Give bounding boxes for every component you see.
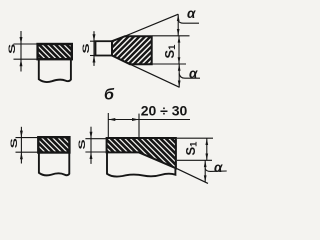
figure 4: arrow down [90, 132, 93, 139]
figure 4: arrow left [108, 118, 115, 121]
figure 2: upper angle leader arrow down [177, 29, 180, 36]
figure 4: dimension line S [90, 127, 92, 164]
figure 1: dimension line S [20, 31, 22, 72]
svg-text:20 ÷ 30: 20 ÷ 30 [141, 103, 188, 119]
figure 2: upper angle leader tail [178, 21, 199, 24]
figure 4: arrow right [132, 118, 139, 121]
figure 2: arrow up [93, 56, 96, 63]
figure 1: arrow down [20, 37, 23, 44]
figure 3: deposited weld band (hatched) [38, 137, 69, 152]
figure 4: extension line S bottom [85, 151, 106, 153]
figure 1: base plate with break line [39, 59, 71, 82]
svg-text:α: α [214, 160, 223, 175]
svg-text:S: S [81, 43, 91, 53]
figure 2: upper bevel slant line [125, 14, 178, 36]
svg-text:S: S [7, 44, 17, 54]
svg-text:S1: S1 [162, 44, 178, 59]
figure 2: base plate edge rectangle [96, 41, 113, 55]
figure 4: angle leader arrow down [204, 175, 207, 182]
figure 3: base plate with break line [39, 153, 69, 176]
figure 2: S1 dimension line [178, 36, 180, 64]
figure 4: extension line S top [85, 138, 106, 140]
figure 2: lower angle leader tail [179, 74, 200, 79]
figure 3: arrow up [20, 152, 23, 159]
figure 3: extension line top [16, 137, 39, 139]
figure 4: extension line 20-30 left [107, 113, 109, 138]
svg-text:S: S [77, 139, 87, 149]
figure 2: lower angle leader arrow down [178, 81, 181, 88]
figure 4: dimension line 20-30 [108, 119, 190, 121]
svg-text:S: S [9, 138, 19, 148]
figure 4: bevel slant extension line [176, 168, 208, 183]
figure 3: dimension line S [20, 127, 22, 164]
figure 2: upper angle leader arrow up [177, 14, 180, 21]
figure 4: S1 extension line top [177, 137, 213, 139]
figure 1: deposited weld band (hatched) [38, 44, 72, 59]
figure 2: extension line top S [90, 40, 96, 42]
figure 2: lower angle leader line [178, 64, 180, 87]
figure 4: angle leader arrow up [204, 160, 207, 167]
figure 2: lower bevel slant line [130, 64, 180, 87]
figure 4: S1 arrow up [205, 138, 208, 145]
svg-text:б: б [104, 87, 115, 104]
figure 2: lower angle leader arrow up [178, 64, 181, 71]
svg-text:S1: S1 [183, 141, 199, 156]
figure 2: deposited metal wedge (hatched) [112, 36, 152, 64]
figure 4: S1 arrow down [205, 154, 208, 161]
svg-text:α: α [189, 66, 198, 81]
figure 4: angle leader tail [205, 169, 227, 172]
figure 4: arrow up [90, 152, 93, 159]
figure 2: S1 arrow up [178, 36, 181, 43]
figure 2: arrow down [93, 34, 96, 41]
figure 2: extension line bottom S [90, 55, 96, 57]
figure 1: extension line bottom [14, 58, 38, 60]
figure 2: S1 extension line bottom [153, 63, 187, 65]
figure 2: dimension line S [93, 31, 95, 66]
figure 4: extension line 20-30 right [138, 114, 140, 138]
figure 2: S1 arrow down [178, 57, 181, 64]
figure 4: base plate with break line [107, 152, 175, 176]
figure 3: arrow down [20, 131, 23, 138]
figure 2: upper angle leader line [177, 14, 179, 36]
figure 1: arrow up [20, 59, 23, 66]
figure 1: extension line top [14, 43, 38, 45]
figure 3: extension line bottom [16, 151, 39, 153]
figure 2: S1 extension line top [153, 35, 190, 37]
svg-text:α: α [187, 6, 196, 21]
figure 4: angle leader line [204, 160, 206, 182]
figure 4: S1 extension line bottom [177, 159, 212, 161]
figure 4: deposited band with bevel (hatched) [107, 138, 176, 168]
figure 4: S1 dimension line [206, 138, 208, 160]
